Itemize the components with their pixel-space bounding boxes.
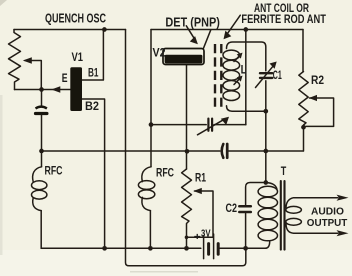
svg-text:AUDIO: AUDIO — [311, 205, 344, 217]
svg-text:E: E — [62, 73, 68, 85]
svg-text:V2: V2 — [153, 46, 166, 60]
svg-text:RFC: RFC — [156, 168, 174, 180]
svg-text:OUTPUT: OUTPUT — [307, 217, 348, 229]
svg-text:B1: B1 — [88, 66, 99, 80]
svg-text:RFC: RFC — [45, 165, 63, 177]
svg-text:R1: R1 — [195, 172, 206, 184]
svg-text:DET (PNP): DET (PNP) — [165, 15, 220, 29]
svg-text:C1: C1 — [273, 70, 282, 82]
svg-text:L: L — [241, 65, 247, 77]
svg-text:FERRITE ROD ANT: FERRITE ROD ANT — [241, 12, 326, 26]
svg-text:V1: V1 — [72, 50, 84, 64]
svg-text:QUENCH OSC: QUENCH OSC — [45, 10, 106, 25]
svg-text:T: T — [281, 164, 287, 178]
svg-text:3V: 3V — [201, 228, 211, 240]
svg-text:B2: B2 — [85, 99, 99, 113]
svg-text:R2: R2 — [311, 75, 324, 87]
svg-text:C2: C2 — [226, 203, 238, 215]
svg-text:+: + — [194, 231, 201, 243]
